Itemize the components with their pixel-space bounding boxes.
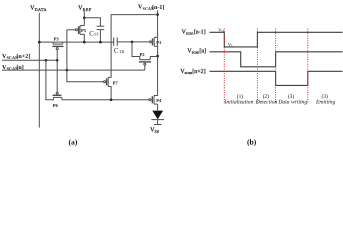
svg-text:ST: ST	[94, 32, 99, 37]
signal Vscan[n]	[210, 52, 343, 67]
capacitor CST	[97, 25, 105, 27]
wire VREF to CST top	[84, 18, 100, 27]
wire phase line 2	[256, 29, 258, 105]
node VREF junction	[83, 16, 86, 19]
svg-text:L: L	[231, 44, 233, 48]
svg-text:P2: P2	[140, 52, 146, 57]
wire P6 drain to P4 gate	[62, 99, 149, 101]
svg-text:(a): (a)	[69, 137, 78, 146]
transistor P1	[150, 41, 152, 43]
svg-text:P7: P7	[113, 80, 119, 85]
transistor P7	[104, 81, 106, 83]
wire P4 to OLED	[157, 104, 159, 110]
svg-text:TH: TH	[119, 49, 124, 54]
node P5 drain junction	[83, 41, 86, 44]
transistor P5	[67, 29, 75, 31]
wire VSCAN[n-1] stem	[157, 10, 159, 37]
node P3/P6 gate junction	[56, 59, 59, 62]
svg-text:Data writing: Data writing	[277, 100, 307, 106]
wire VREF stem	[83, 11, 85, 25]
node VSCAN[n-1] junction	[156, 13, 159, 16]
svg-text:Initialization: Initialization	[224, 100, 254, 106]
wire P6 source to VSCAN[n+2]	[46, 60, 54, 100]
svg-text:P6: P6	[53, 103, 59, 108]
node VSS label	[150, 127, 160, 134]
svg-text:(b): (b)	[247, 137, 257, 146]
diode OLED	[152, 111, 163, 120]
wire VSCAN[n+2]	[2, 59, 57, 61]
transistor P6	[56, 92, 58, 94]
node CST bottom junction	[99, 41, 102, 44]
transistor P4	[149, 99, 151, 101]
svg-text:DATA: DATA	[35, 7, 47, 12]
capacitor CTH	[113, 38, 115, 46]
node phase 3 label	[277, 94, 307, 105]
wire phase line 4	[307, 29, 309, 105]
svg-text:P3: P3	[54, 36, 60, 41]
wire P5/P7 gate chain	[67, 30, 104, 82]
wire VSCAN[n-1] to P7 branch	[111, 15, 158, 78]
svg-text:[n-1]: [n-1]	[152, 4, 164, 11]
node Vscan[n-1] label	[182, 29, 206, 36]
svg-text:[n+2]: [n+2]	[16, 53, 30, 60]
wire phase line 1	[223, 29, 225, 105]
wire P6 gate vertical	[56, 60, 58, 92]
wire VSCAN[n]	[2, 69, 145, 71]
node VDATA/P3 junction	[38, 41, 41, 44]
svg-text:P5: P5	[81, 28, 87, 33]
wire main right vertical	[157, 37, 159, 96]
node VREF label	[78, 4, 92, 12]
node VL label	[228, 42, 233, 48]
node VH label	[218, 28, 224, 34]
signal Vscan[n+2]	[210, 71, 343, 85]
node VSCAN[n-1] label	[138, 4, 164, 11]
svg-text:[n]: [n]	[199, 48, 206, 55]
svg-text:SS: SS	[155, 129, 160, 134]
svg-text:Emitting: Emitting	[315, 100, 335, 106]
svg-text:P1: P1	[156, 40, 162, 45]
signal Vscan[n-1]	[210, 32, 343, 47]
node VSCAN[n+2] label	[2, 53, 30, 60]
node P7 source junction	[110, 99, 113, 102]
node P2 drain junction	[156, 55, 159, 58]
node phase 1 label	[224, 94, 254, 105]
wire VDATA vertical	[38, 13, 40, 128]
node phase 4 label	[315, 94, 335, 105]
node Vscan[n] label	[187, 48, 206, 55]
wire phase line 3	[275, 29, 277, 105]
node P5/P7 gate junction	[66, 69, 69, 72]
node VDATA label	[30, 4, 47, 12]
svg-text:P4: P4	[156, 98, 162, 103]
node phase 2 label	[255, 94, 278, 105]
node Vscan[n+2] label	[180, 68, 205, 75]
svg-text:[n+2]: [n+2]	[192, 68, 205, 75]
node CTH/P1/P2 junction	[131, 41, 134, 44]
wire storage rail	[39, 41, 113, 43]
svg-text:[n-1]: [n-1]	[194, 29, 206, 36]
node P6 source junction	[45, 59, 48, 62]
node VSCAN[n] label	[2, 64, 24, 71]
svg-text:Detection: Detection	[255, 100, 278, 106]
